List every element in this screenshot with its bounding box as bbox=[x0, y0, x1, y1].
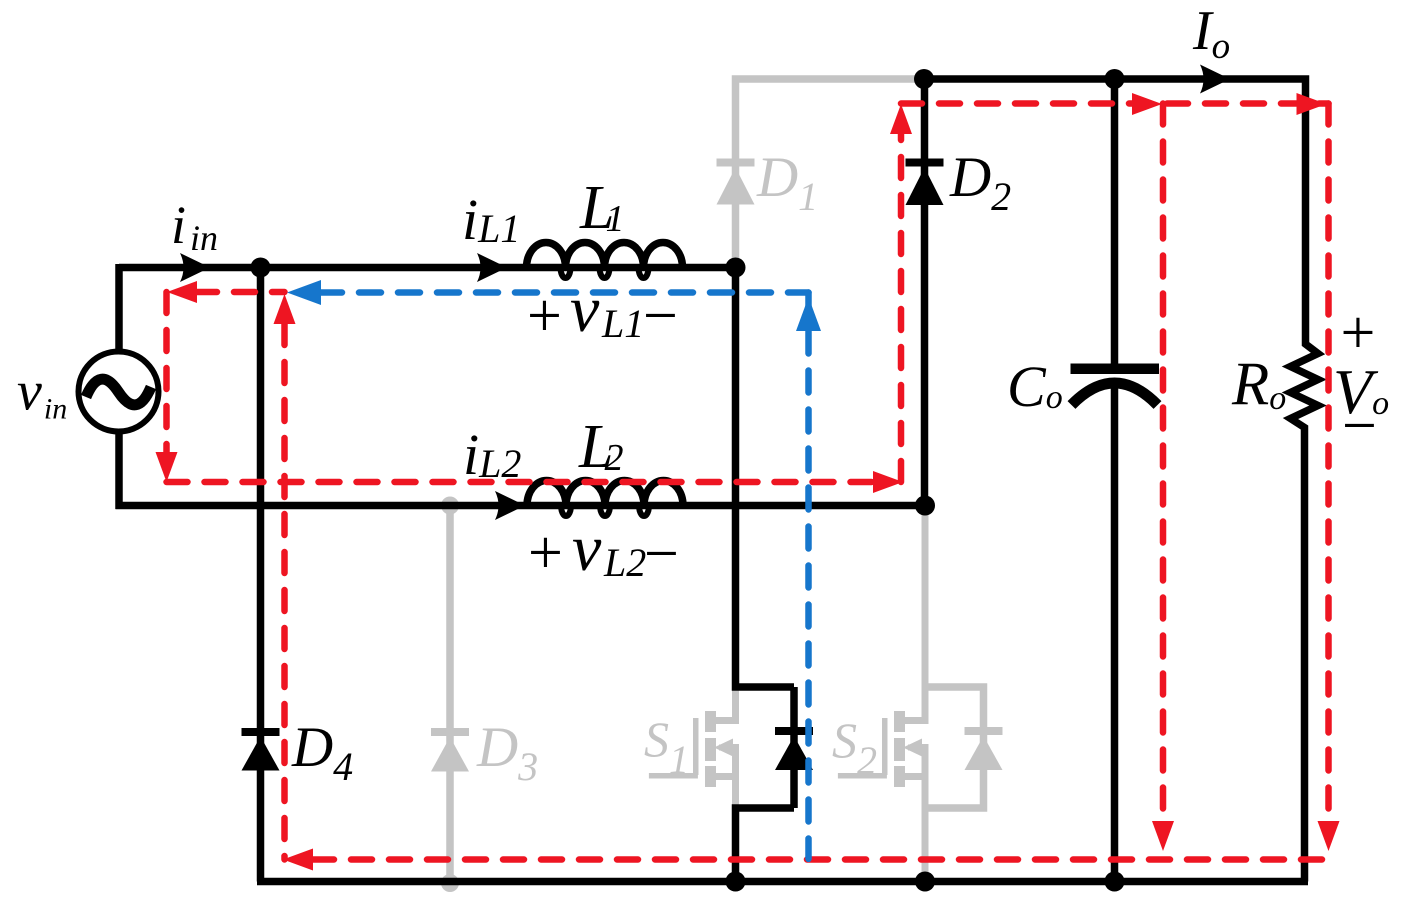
wire: S1 column with jogs around body diode bbox=[736, 268, 795, 882]
arrow red right on top rail (before Co) bbox=[1132, 93, 1162, 115]
diode D1 (gray, inactive) bbox=[717, 159, 755, 205]
arrow i_L1 bbox=[477, 253, 507, 282]
arrow red down Ro loop bbox=[1318, 821, 1340, 851]
arrow red down Co loop bbox=[1152, 821, 1174, 851]
wire: D2 branch from top rail down to L2 node bbox=[921, 79, 929, 506]
wire: source bottom lead bbox=[115, 432, 123, 510]
wire: S2 drain-source jogs and body-diode branch (gray) bbox=[925, 687, 984, 808]
diode: S1 body diode (black, conducting) bbox=[775, 727, 813, 770]
svg-text:−: − bbox=[1338, 392, 1380, 460]
source sine symbol bbox=[86, 379, 151, 405]
node: ground S1 dot bbox=[726, 872, 746, 892]
arrow i_L2 bbox=[495, 491, 525, 520]
inductor L1 bbox=[527, 243, 683, 268]
arrow i_in bbox=[180, 253, 210, 282]
arrow red up to top rail bbox=[890, 104, 912, 134]
arrow blue up along S1 bbox=[796, 297, 821, 331]
wire: ground bottom rail bbox=[257, 878, 1308, 886]
arrow red right at top right corner bbox=[1297, 93, 1327, 115]
wire: lower input wire to L2 and S2 node bbox=[116, 502, 926, 510]
svg-text:v: v bbox=[572, 512, 602, 585]
capacitor Co top plate bbox=[1071, 364, 1160, 375]
svg-text:+: + bbox=[524, 519, 566, 587]
wire: red path top-left horizontal bbox=[196, 289, 285, 296]
diode D3 branch wire (gray) bbox=[446, 506, 454, 884]
arrow red right into boost node bbox=[873, 471, 903, 493]
capacitor Co bottom curved plate bbox=[1072, 383, 1158, 405]
node: top rail Co node dot bbox=[1105, 69, 1125, 89]
wire: Co branch vertical bbox=[1111, 79, 1119, 882]
transistor S1 MOSFET symbol (gray, channel off) bbox=[649, 690, 739, 810]
svg-text:L1: L1 bbox=[601, 301, 644, 346]
diode D2 (black, conducting) bbox=[906, 159, 944, 206]
node: input node dot bbox=[251, 258, 271, 278]
node: gray dot D3 top on L2 wire bbox=[441, 497, 459, 515]
arrow blue left at input node bbox=[287, 280, 321, 305]
wire: top output rail and Ro right branch with resistor bbox=[924, 79, 1318, 882]
node: top rail D2 node dot bbox=[914, 69, 934, 89]
node: ground S2 dot bbox=[915, 872, 935, 892]
wire: red path left vertical (vin return) bbox=[163, 292, 170, 452]
arrow red down at vin bottom bbox=[156, 452, 178, 482]
wire: blue vertical along S1 bbox=[805, 293, 812, 860]
arrow red up through D4 bbox=[274, 294, 296, 324]
wire: red path Co loop vertical bbox=[1160, 104, 1167, 842]
wire: gray top rail segment from D1 top to output node bbox=[736, 79, 925, 268]
wire: blue horizontal along L1 bbox=[320, 289, 809, 296]
wire: red path lower horizontal along L2 bbox=[167, 479, 874, 486]
wire: red path bottom horizontal bbox=[313, 856, 1329, 863]
wire: source top lead bbox=[115, 264, 123, 352]
arrow I_o bbox=[1200, 65, 1230, 94]
wire: top input wire from source to L1 node bbox=[119, 264, 736, 272]
diode D4 (black, conducting) bbox=[242, 728, 280, 771]
arrow red left on bottom rail bbox=[283, 849, 313, 871]
arrow red left at vin bbox=[167, 281, 197, 303]
source v_in circle bbox=[79, 352, 159, 432]
wire: red path vertical up to top rail bbox=[898, 131, 905, 482]
node: ground Co dot bbox=[1105, 872, 1125, 892]
svg-text:v: v bbox=[570, 273, 600, 346]
node: gray dot D3 bottom on ground rail bbox=[441, 874, 459, 892]
wire: D4 branch from input node down to ground rail bbox=[257, 268, 265, 882]
node: L2/D2/S2 node dot bbox=[915, 496, 935, 516]
inductor L2 bbox=[527, 480, 683, 505]
transistor S2 MOSFET symbol (gray, inactive) bbox=[838, 506, 929, 885]
diode: S2 body diode (gray, inactive) bbox=[965, 727, 1003, 770]
wire: red path D4 vertical bbox=[281, 324, 288, 860]
diode D3 (gray, inactive) bbox=[431, 728, 469, 772]
svg-text:−: − bbox=[640, 520, 682, 588]
wire: red path top horizontal bbox=[901, 100, 1329, 107]
node: L1/D1/S1 node dot bbox=[726, 258, 746, 278]
wire: red path Ro loop vertical bbox=[1325, 104, 1332, 842]
